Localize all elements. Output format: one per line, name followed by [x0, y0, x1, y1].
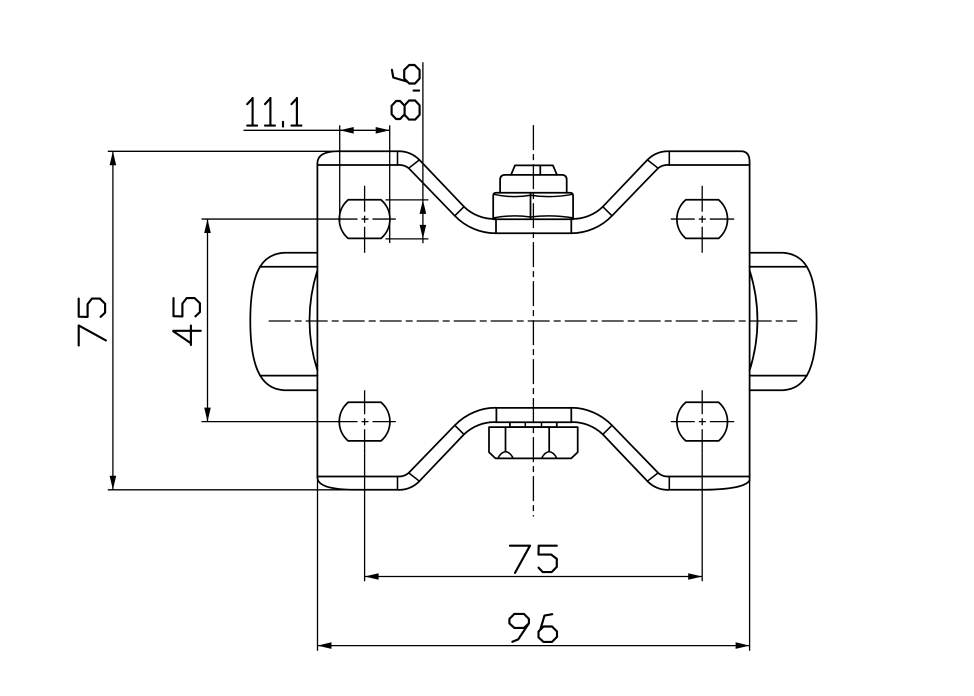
- text 96: [509, 614, 529, 642]
- dim 75 left line: [112, 151, 114, 490]
- leg bend inner curve bottom-left: [398, 408, 496, 477]
- dim 75 left extension top: [108, 150, 345, 152]
- plate inner bend line bottom-right: [669, 476, 749, 478]
- plate inner bend line top-right: [669, 164, 749, 166]
- arrow 45 down: [204, 408, 211, 422]
- leg bend outer curve top-left: [398, 151, 496, 219]
- dim 45 line: [207, 219, 209, 422]
- hole TL vertical centerline: [364, 186, 366, 253]
- left wheel edge arc: [310, 270, 318, 370]
- arrow 75B right: [688, 573, 702, 580]
- arrow 8.6 down: [420, 225, 427, 239]
- bend tangent tick top-right a: [668, 151, 670, 165]
- dim 11.1 extension a: [339, 125, 341, 222]
- arrow 96 right: [736, 642, 750, 649]
- plate bottom edge left: [356, 489, 398, 491]
- right wheel edge arc: [750, 270, 758, 370]
- bend tangent tick bottom-left c: [455, 425, 464, 434]
- hole BR horizontal centerline: [671, 421, 734, 423]
- leg bend outer curve bottom-left: [398, 422, 496, 490]
- bottom nut face edge b: [548, 427, 550, 451]
- bolt hole top-right: [677, 200, 728, 239]
- plate top edge left: [338, 150, 398, 152]
- dim 75 bottom line: [365, 576, 703, 578]
- dim 96 line: [318, 645, 750, 647]
- locknut collar: [500, 175, 567, 193]
- arrow 45 up: [204, 219, 211, 233]
- bolt hole top-left: [339, 200, 390, 239]
- left hub chamfer line bottom: [260, 375, 317, 377]
- kingpin cap edge: [539, 165, 541, 175]
- plate top edge right: [669, 150, 741, 152]
- dim 8.6 extension b: [386, 238, 429, 240]
- plate inner bend line bottom-left: [317, 476, 397, 478]
- dim 11.1 line: [244, 129, 390, 131]
- locknut body top: [493, 193, 573, 219]
- bottom nut chamfer arcs b: [542, 452, 557, 459]
- bottom washer: [510, 422, 557, 427]
- hole BL vertical centerline + 75 extension: [364, 390, 366, 453]
- text 75 bottom: [510, 546, 530, 573]
- arrow 75L up: [110, 151, 117, 165]
- hole TL horizontal centerline + 45 extension: [202, 218, 334, 220]
- bend tangent tick bottom-left a: [397, 477, 399, 490]
- main vertical centerline: [532, 125, 534, 516]
- bend tangent tick top-right c: [603, 207, 612, 216]
- main horizontal centerline: [269, 320, 798, 322]
- arrow 8.6 up: [420, 200, 427, 214]
- left hub chamfer line top: [260, 266, 317, 268]
- bend tangent tick top-left a: [397, 151, 399, 165]
- hole TR vertical centerline: [701, 186, 703, 253]
- leg bend outer curve bottom-right: [571, 422, 669, 490]
- dim 8.6 extension a: [386, 199, 429, 201]
- plate bottom edge right: [669, 489, 705, 491]
- leg bend inner curve top-right: [571, 165, 669, 233]
- bottom hex nut outline: [489, 427, 578, 458]
- left wheel hub outline: [250, 253, 317, 390]
- leg bend outer curve top-right: [571, 151, 669, 219]
- plate inner bend line top-left: [317, 164, 397, 166]
- right hub chamfer line top: [750, 266, 807, 268]
- text 8,6 rotated: [392, 101, 420, 120]
- bottom washer bolt edges: [525, 422, 541, 427]
- right wheel hub outline: [750, 253, 817, 390]
- locknut face edge top: [530, 193, 532, 219]
- plate corner top-right: [741, 151, 750, 162]
- arrow 11.1 right: [376, 127, 390, 134]
- plate corner bottom-left: [317, 478, 356, 490]
- dim 8.6 line: [422, 62, 424, 243]
- leg bend inner curve bottom-right: [571, 408, 669, 477]
- locknut chamfer scallops bottom: [494, 216, 573, 218]
- arrow 11.1 left: [340, 127, 354, 134]
- hole BR vertical centerline + 75 extension: [701, 390, 703, 453]
- plate corner bottom-right: [705, 481, 750, 490]
- bend tangent tick top-left c: [455, 207, 464, 216]
- bend tangent tick bottom-right a: [668, 477, 670, 490]
- plate right edge: [749, 162, 751, 481]
- plate left edge: [316, 164, 318, 478]
- bottom nut chamfer arcs a: [498, 452, 513, 459]
- dim 96 extension left: [317, 480, 319, 651]
- locknut chamfer scallops top: [494, 194, 573, 196]
- dim 11.1 extension b: [389, 125, 391, 243]
- dim 75 left extension bottom: [108, 489, 356, 491]
- hole TR horizontal centerline: [671, 218, 734, 220]
- kingpin cap: [511, 165, 557, 175]
- hole BL horizontal centerline + 45 extension: [202, 421, 334, 423]
- dim 96 extension right: [749, 481, 751, 651]
- right hub chamfer line bottom: [750, 375, 807, 377]
- bend tangent tick bottom-left b: [409, 473, 420, 481]
- leg bend inner curve top-left: [398, 165, 496, 233]
- plate corner top-left: [317, 151, 338, 163]
- top seat band: [496, 219, 571, 233]
- text 75 left rotated: [79, 325, 106, 345]
- arrow 96 left: [318, 642, 332, 649]
- bend tangent tick bottom-right c: [603, 425, 612, 434]
- arrow 75B left: [365, 573, 379, 580]
- bend tangent tick bottom-right b: [647, 473, 658, 481]
- bend tangent tick top-right b: [647, 160, 658, 168]
- bolt hole bottom-left: [339, 402, 390, 441]
- bottom seat band: [496, 408, 571, 422]
- bottom nut face edge a: [505, 427, 507, 451]
- arrow 75L down: [110, 476, 117, 490]
- text 45 rotated: [173, 326, 201, 345]
- bolt hole bottom-right: [677, 402, 728, 441]
- bend tangent tick top-left b: [409, 160, 420, 168]
- text 11.1: [247, 98, 257, 126]
